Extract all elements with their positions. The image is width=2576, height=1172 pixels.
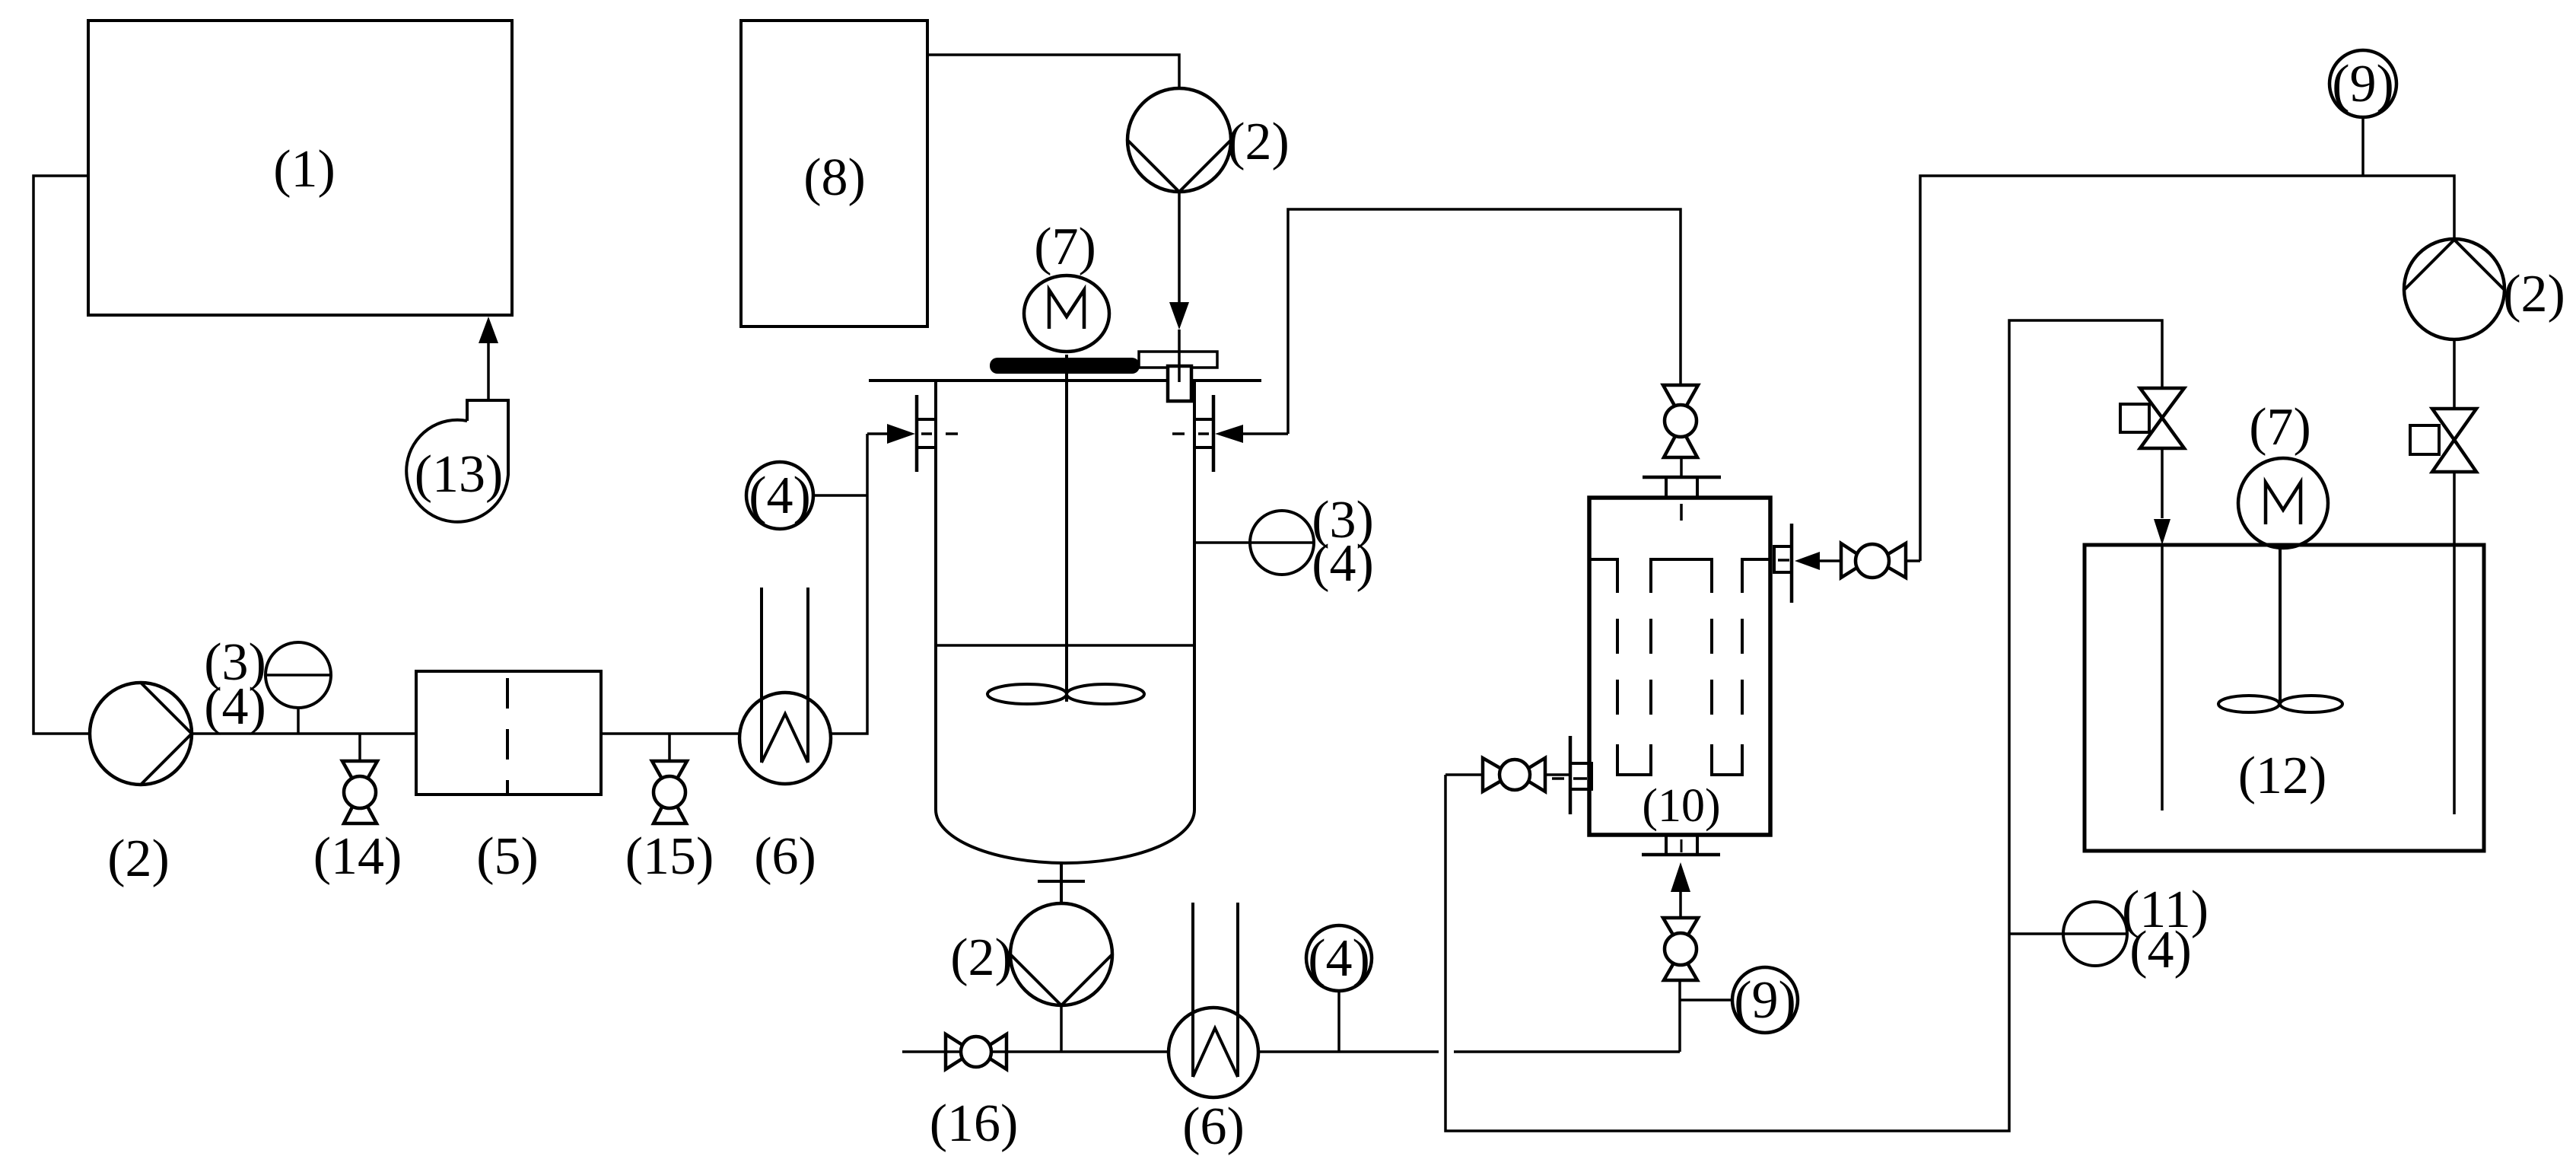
tank (1) bbox=[88, 21, 512, 315]
svg-text:(2): (2) bbox=[950, 928, 1013, 987]
svg-text:(13): (13) bbox=[415, 445, 504, 504]
heat exchanger (6) left bbox=[739, 588, 831, 784]
heat exchanger (6) bottom bbox=[1169, 903, 1258, 1097]
valve (16) bbox=[946, 1034, 1007, 1069]
agitator seal black bar bbox=[990, 358, 1140, 374]
permeate line to tank (12) bbox=[1445, 320, 2162, 1131]
pump (2) right bbox=[2404, 239, 2504, 339]
valve above column bbox=[1663, 385, 1698, 457]
control valve below pump right bbox=[2410, 339, 2476, 472]
feed line pump top into reactor with arrow bbox=[1169, 192, 1189, 330]
line filter(5) to HX(6) bbox=[601, 732, 740, 735]
svg-text:(6): (6) bbox=[1182, 1097, 1245, 1156]
arrow into right nozzle bbox=[1215, 425, 1288, 443]
svg-text:(8): (8) bbox=[803, 148, 866, 207]
column right port bbox=[1774, 524, 1841, 603]
sensor (4) reactor left bbox=[746, 462, 867, 529]
svg-text:(16): (16) bbox=[930, 1094, 1019, 1153]
column top port bbox=[1643, 459, 1721, 521]
sensor (4) bottom bbox=[1306, 925, 1372, 1052]
sensor (9) bottom bbox=[1681, 967, 1798, 1033]
svg-text:(14): (14) bbox=[313, 827, 402, 886]
svg-text:(4): (4) bbox=[204, 677, 266, 736]
liquid level bbox=[936, 644, 1194, 647]
bottom line left segment bbox=[902, 1050, 1169, 1053]
svg-text:(4): (4) bbox=[749, 467, 811, 525]
feed line right side to column valve bbox=[1288, 209, 1681, 434]
bottom line right segment (after crossing gap) bbox=[1454, 1050, 1680, 1053]
sensor (3)(4) reactor right bbox=[1194, 511, 1314, 575]
sensor (3)(4) left bbox=[266, 642, 331, 734]
reactor vessel bbox=[936, 381, 1194, 863]
column internals baffles bbox=[1591, 559, 1769, 775]
filter (5) bbox=[416, 671, 601, 795]
valve (14) bbox=[342, 734, 377, 823]
svg-text:(2): (2) bbox=[107, 830, 170, 888]
column bottom port with arrow bbox=[1642, 835, 1720, 918]
impeller reactor bbox=[987, 684, 1144, 704]
arrow into left nozzle bbox=[867, 424, 915, 444]
svg-text:(5): (5) bbox=[476, 827, 539, 886]
svg-text:(4): (4) bbox=[2129, 921, 2192, 979]
reactor lid bbox=[869, 379, 1261, 382]
line valve up over to pump right bbox=[1920, 176, 2454, 561]
wire tank(1) to pump P1 bbox=[33, 176, 90, 734]
svg-text:(2): (2) bbox=[1227, 113, 1290, 171]
line pump bottom to main bottom line bbox=[1060, 1005, 1063, 1052]
riser to valve under column bbox=[1678, 980, 1681, 1052]
sensor (11)(4) bbox=[2009, 902, 2127, 966]
svg-text:(15): (15) bbox=[625, 827, 714, 886]
dip tube into tank (12) with arrow bbox=[2154, 448, 2171, 811]
main feed line pump to filter(5) bbox=[192, 732, 416, 735]
svg-text:(7): (7) bbox=[1034, 218, 1096, 276]
left nozzle flange bbox=[917, 395, 958, 472]
coupling white bar bbox=[1139, 352, 1217, 368]
valve left of column bbox=[1445, 758, 1545, 791]
reactor bottom outlet bbox=[1038, 861, 1085, 903]
tank (8) bbox=[741, 21, 927, 326]
right nozzle flange bbox=[1172, 395, 1213, 472]
svg-text:(10): (10) bbox=[1642, 780, 1720, 832]
motor (7) tank bbox=[2238, 458, 2328, 548]
control valve to tank (12) bbox=[2120, 388, 2184, 448]
column (10) shell bbox=[1589, 498, 1770, 835]
tank (12) bbox=[2085, 545, 2484, 851]
stirrer shaft reactor bbox=[1065, 355, 1068, 702]
sensor (9) top bbox=[2330, 50, 2396, 176]
svg-text:(12): (12) bbox=[2238, 747, 2327, 805]
valve right of column bbox=[1841, 543, 1920, 578]
impeller tank bbox=[2218, 696, 2342, 712]
stirrer shaft tank bbox=[2279, 549, 2282, 701]
bottom line mid segment bbox=[1258, 1050, 1439, 1053]
svg-text:(9): (9) bbox=[1734, 971, 1796, 1030]
wire tank(8) to pump (2) top bbox=[927, 55, 1179, 88]
svg-text:(2): (2) bbox=[2503, 265, 2565, 323]
suction dip tube pump right bbox=[2453, 472, 2456, 814]
valve below column bbox=[1663, 918, 1698, 980]
line HX(6) up to reactor nozzle bbox=[830, 434, 867, 734]
svg-text:(4): (4) bbox=[1308, 929, 1370, 988]
svg-text:(1): (1) bbox=[273, 140, 336, 199]
wire blower to tank(1) with arrow bbox=[479, 317, 498, 400]
valve (15) bbox=[652, 734, 687, 823]
svg-text:(9): (9) bbox=[2332, 55, 2394, 113]
svg-text:(7): (7) bbox=[2249, 398, 2311, 457]
blower (13) bbox=[406, 400, 508, 522]
column left port bbox=[1545, 736, 1592, 814]
lid port box bbox=[1168, 366, 1191, 401]
svg-text:(4): (4) bbox=[1312, 534, 1374, 593]
pump (2) left bbox=[90, 683, 192, 785]
pump (2) top bbox=[1127, 88, 1231, 192]
pump (2) bottom bbox=[1010, 903, 1112, 1005]
svg-text:(6): (6) bbox=[754, 827, 816, 886]
line through white bar into port bbox=[1178, 330, 1181, 382]
motor (7) reactor bbox=[1024, 275, 1109, 352]
